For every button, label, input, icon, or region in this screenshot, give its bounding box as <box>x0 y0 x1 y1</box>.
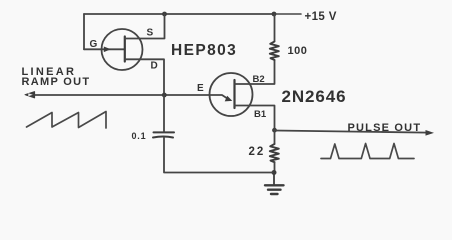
sawtooth ramp waveform <box>27 112 107 129</box>
capacitor C1 0.1 bottom plate <box>153 137 173 138</box>
wire: ramp node down to capacitor C1 <box>163 95 165 132</box>
capacitor C1 0.1 top plate <box>154 131 175 133</box>
svg-text:G: G <box>90 39 98 50</box>
ramp out arrowhead <box>25 92 35 98</box>
transistor Q2 base bar <box>233 80 235 108</box>
transistor Q2 emitter arrow <box>225 96 233 102</box>
resistor R1 100 <box>270 42 279 61</box>
svg-text:2N2646: 2N2646 <box>282 87 347 106</box>
node: +15V rail junction <box>272 12 277 17</box>
wire: capacitor C1 bottom to ground rail <box>164 138 274 173</box>
node: ramp/drain/capacitor junction <box>162 93 167 98</box>
ground symbol <box>265 173 284 195</box>
node: pulse out junction <box>272 128 277 133</box>
wire: top rail from gate loop to +15V node <box>84 13 274 15</box>
pulse out arrowhead <box>426 130 435 136</box>
svg-text:HEP803: HEP803 <box>171 42 237 59</box>
wire: linear ramp out line / emitter wire <box>27 95 229 99</box>
svg-text:+15 V: +15 V <box>305 11 337 23</box>
wire: resistor R2 to ground node <box>274 162 276 173</box>
wire: gate horizontal into Q1 <box>84 48 124 50</box>
svg-text:D: D <box>151 61 158 72</box>
svg-text:0.1: 0.1 <box>132 131 147 141</box>
wire: B1 lead down to pulse node <box>235 106 275 131</box>
wire: source lead of Q1 <box>125 14 165 39</box>
wire: gate loop left vertical <box>83 14 85 49</box>
resistor R2 22 <box>270 144 279 162</box>
node: ground junction <box>272 170 277 175</box>
wire: drain lead of Q1 down to ramp node <box>125 59 164 95</box>
svg-text:PULSE OUT: PULSE OUT <box>348 122 422 134</box>
wire: B2 lead up to resistor R1 <box>235 60 275 84</box>
pulse waveform <box>321 144 414 159</box>
wire: +15V rail down to resistor R1 <box>274 14 276 41</box>
node: source-to-rail junction <box>162 12 167 17</box>
transistor Q1 HEP803 JFET body <box>102 29 143 70</box>
svg-text:E: E <box>197 83 204 94</box>
svg-text:100: 100 <box>288 45 308 57</box>
wire: pulse out line <box>275 131 429 133</box>
transistor Q1 channel bar <box>124 37 126 62</box>
svg-text:B1: B1 <box>254 109 267 120</box>
svg-text:B2: B2 <box>253 74 265 85</box>
wire: +15V rail stub to label <box>274 13 301 15</box>
transistor Q1 gate arrow <box>104 47 111 53</box>
transistor Q2 2N2646 UJT body <box>210 73 253 116</box>
wire: node to resistor R2 <box>274 130 276 144</box>
svg-text:RAMP OUT: RAMP OUT <box>22 76 91 88</box>
svg-text:22: 22 <box>249 146 266 158</box>
svg-text:S: S <box>147 28 154 39</box>
